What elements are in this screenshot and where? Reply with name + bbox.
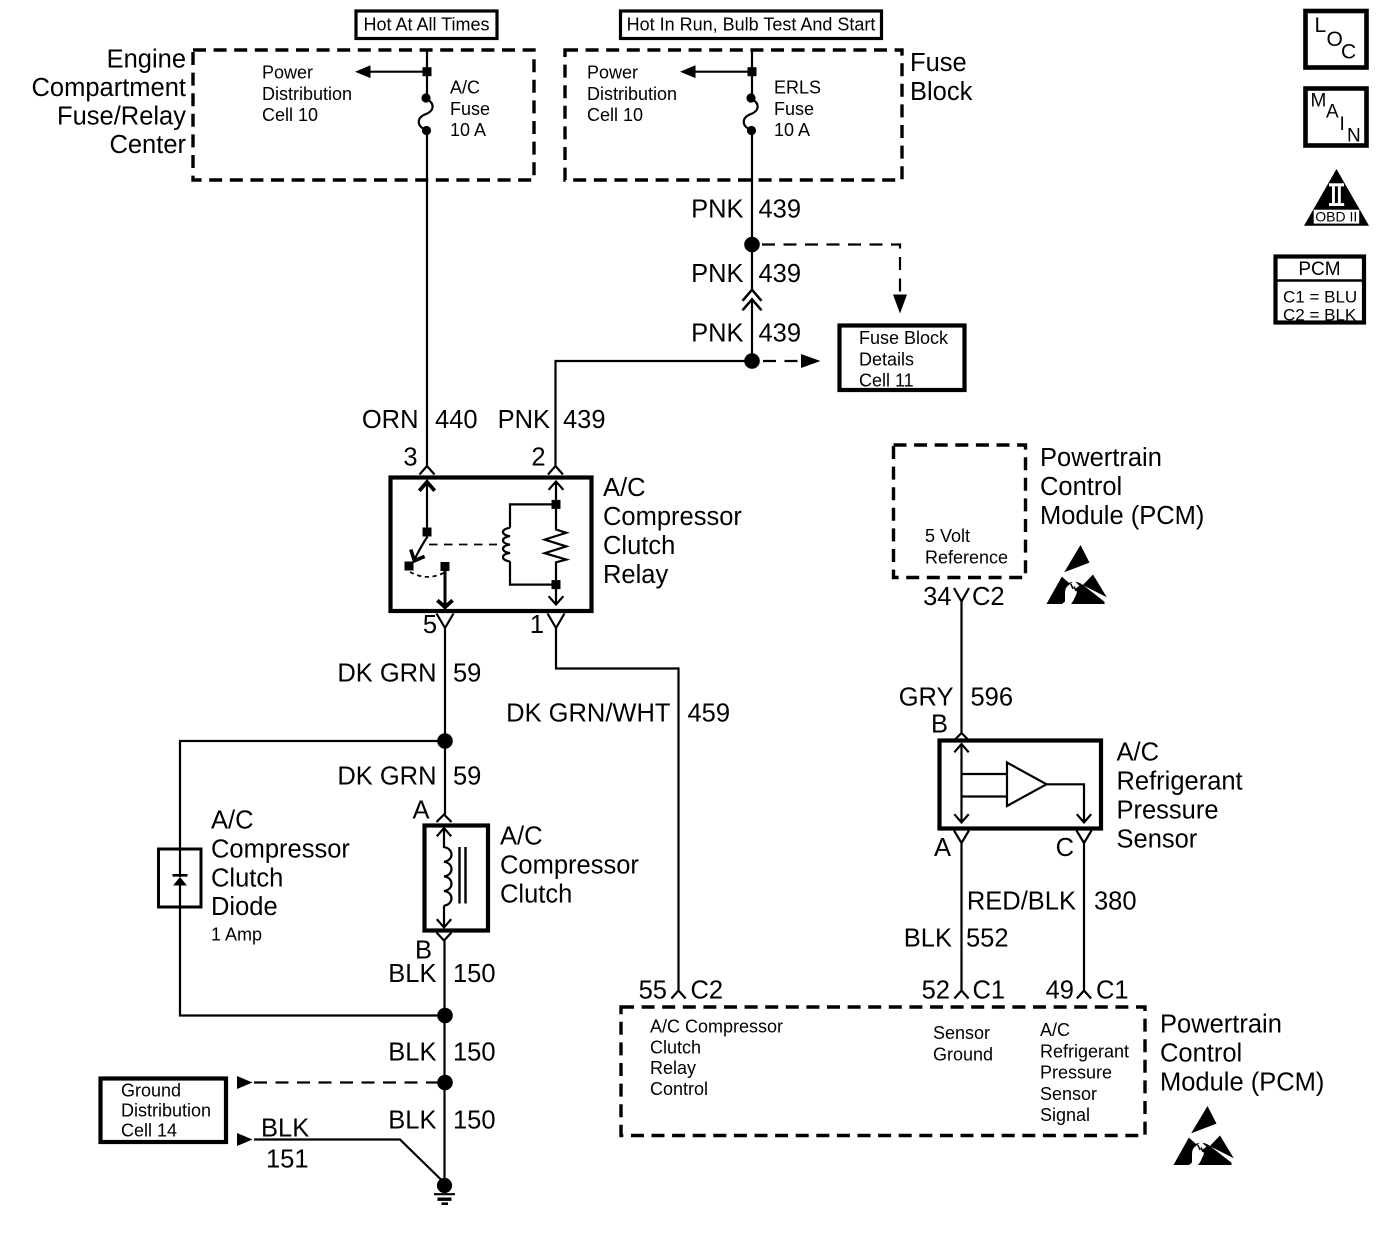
label box: Hot At All Times xyxy=(356,11,497,39)
svg-text:A/C Compressor: A/C Compressor xyxy=(650,1017,783,1037)
wire label: BLK 150 (first) xyxy=(388,960,495,988)
svg-text:Engine: Engine xyxy=(107,46,186,74)
PCM bottom dashed box xyxy=(621,1007,1145,1136)
junction J3 xyxy=(437,733,453,749)
fuse F: ERLS Fuse 10 A xyxy=(744,93,758,135)
svg-text:Details: Details xyxy=(859,349,914,369)
svg-text:A/C: A/C xyxy=(500,823,543,851)
pin label: 49 C1 xyxy=(1046,977,1129,1005)
svg-text:440: 440 xyxy=(435,406,478,434)
junction J1 xyxy=(744,237,760,253)
svg-text:C1: C1 xyxy=(973,977,1006,1005)
text: Power Distribution Cell 10 (fuse block) xyxy=(587,63,677,126)
junction square: A/C fuse tap xyxy=(423,67,432,76)
connector Y at sensor pin C xyxy=(1077,831,1092,844)
svg-text:A/C: A/C xyxy=(1040,1020,1070,1040)
text: Power Distribution Cell 10 (left box) xyxy=(262,63,352,126)
svg-text:RED/BLK: RED/BLK xyxy=(967,888,1076,916)
wire: 5V reference to sensor pin B xyxy=(960,602,962,734)
svg-text:59: 59 xyxy=(453,763,481,791)
connector Y at clutch pin B xyxy=(437,933,452,941)
svg-text:459: 459 xyxy=(688,700,731,728)
pin label: 52 C1 xyxy=(922,977,1005,1005)
relay switch arm with arrowhead xyxy=(411,537,428,561)
in-line connector chevrons on PNK wire xyxy=(743,290,762,311)
svg-text:BLK: BLK xyxy=(388,1039,436,1067)
svg-text:DK GRN: DK GRN xyxy=(337,660,436,688)
title: A/C Compressor Clutch Diode xyxy=(211,807,350,922)
svg-text:Ground: Ground xyxy=(933,1044,993,1064)
connector at PCM pin 52 xyxy=(954,991,968,999)
svg-text:ORN: ORN xyxy=(362,406,419,434)
box: Ground Distribution Cell 14 xyxy=(101,1079,227,1143)
relay pin 2 internal arrow xyxy=(549,482,564,501)
wire: battery feed into A/C fuse xyxy=(426,50,428,95)
svg-text:150: 150 xyxy=(453,1107,496,1135)
sensor op-amp xyxy=(1007,763,1047,807)
text: A/C Compressor Clutch Relay Control xyxy=(650,1017,783,1099)
svg-text:Hot At All Times: Hot At All Times xyxy=(363,15,489,35)
svg-text:Pressure: Pressure xyxy=(1040,1063,1112,1083)
svg-text:I: I xyxy=(1340,114,1345,135)
wire label: PNK 439 (middle) xyxy=(691,260,801,288)
sensor: A/C Refrigerant Pressure Sensor box xyxy=(940,741,1102,829)
svg-text:439: 439 xyxy=(759,320,802,348)
junction J5 xyxy=(437,1075,453,1091)
svg-text:34: 34 xyxy=(923,583,951,611)
wire: feed into ERLS fuse xyxy=(751,50,753,95)
relay coil junction square (top) xyxy=(552,500,561,509)
wire: sensor pin C to PCM pin 49 xyxy=(1083,843,1085,990)
wire: ERLS fuse output down to junction 2 xyxy=(751,135,753,291)
connector chevron at clutch pin A xyxy=(437,815,452,823)
svg-text:PNK: PNK xyxy=(691,196,743,224)
svg-text:Sensor: Sensor xyxy=(1117,826,1198,854)
dashed link: J1 to Fuse Block Details xyxy=(762,245,907,314)
wire: A/C fuse output down to relay pin 3 xyxy=(426,135,428,467)
diode D: A/C Compressor Clutch Diode box xyxy=(159,849,202,907)
wire label: RED/BLK 380 xyxy=(967,888,1137,916)
ground G101 xyxy=(434,1178,455,1204)
svg-text:DK GRN: DK GRN xyxy=(337,763,436,791)
wire label: PNK 439 (at relay pin 2) xyxy=(498,406,606,434)
title: A/C Refrigerant Pressure Sensor xyxy=(1117,739,1243,854)
relay K: A/C Compressor Clutch Relay box xyxy=(391,478,592,612)
wire: J3 branch to diode xyxy=(180,741,445,849)
text: A/C Fuse 10 A xyxy=(450,78,490,141)
text: 5 Volt Reference xyxy=(925,526,1008,568)
svg-text:A/C: A/C xyxy=(603,474,646,502)
connector chevron at relay pin 2 xyxy=(548,466,563,475)
svg-text:C1 = BLU: C1 = BLU xyxy=(1283,288,1357,307)
svg-text:439: 439 xyxy=(759,260,802,288)
svg-text:Diode: Diode xyxy=(211,893,278,921)
dashed link: J5 to Ground Distribution xyxy=(237,1076,438,1089)
svg-text:Fuse/Relay: Fuse/Relay xyxy=(57,103,186,131)
connector Y at sensor pin A xyxy=(954,831,969,844)
arrow to Power Distribution (left box) xyxy=(355,65,427,78)
svg-text:Refrigerant: Refrigerant xyxy=(1040,1041,1129,1061)
clutch coil with arrows xyxy=(437,828,452,928)
svg-text:5 Volt: 5 Volt xyxy=(925,526,970,546)
svg-text:C2 = BLK: C2 = BLK xyxy=(1283,306,1357,325)
svg-text:Control: Control xyxy=(1160,1040,1242,1068)
wire label: BLK 150 (third) xyxy=(388,1107,495,1135)
svg-text:5: 5 xyxy=(423,611,437,639)
svg-text:59: 59 xyxy=(453,660,481,688)
title: Engine Compartment Fuse/Relay Center xyxy=(32,46,187,160)
dashed actuation link switch-to-coil xyxy=(429,544,497,546)
title: Powertrain Control Module (PCM) bottom xyxy=(1160,1011,1324,1097)
connector Y at relay pin 1 xyxy=(548,614,565,629)
svg-text:1: 1 xyxy=(530,611,544,639)
svg-text:C1: C1 xyxy=(1096,977,1129,1005)
wire: diode to ground junction J4 xyxy=(180,907,445,1016)
Engine Compartment Fuse/Relay Center dashed box xyxy=(193,50,534,180)
wire: sensor pin A to PCM pin 52 xyxy=(960,843,962,990)
svg-text:Fuse Block: Fuse Block xyxy=(859,328,949,348)
svg-text:C: C xyxy=(1341,41,1356,64)
sensor output with arrow xyxy=(1047,784,1092,822)
relay pin 3 internal arrow xyxy=(419,482,434,529)
svg-text:Refrigerant: Refrigerant xyxy=(1117,768,1243,796)
svg-text:Control: Control xyxy=(1040,473,1122,501)
connector at PCM pin 49 xyxy=(1077,991,1091,999)
PCM 5 Volt Reference dashed box xyxy=(894,445,1026,578)
svg-text:M: M xyxy=(1311,91,1327,112)
svg-text:Compressor: Compressor xyxy=(603,503,742,531)
svg-text:Compressor: Compressor xyxy=(500,852,639,880)
svg-text:BLK: BLK xyxy=(388,1107,436,1135)
title: A/C Compressor Clutch xyxy=(500,823,639,909)
svg-text:Center: Center xyxy=(109,131,186,159)
svg-text:A/C: A/C xyxy=(1117,739,1160,767)
clutch M: A/C Compressor Clutch box xyxy=(425,826,489,931)
svg-text:Clutch: Clutch xyxy=(650,1037,701,1057)
Fuse Block dashed box xyxy=(565,50,902,180)
legend table: PCM connector colors xyxy=(1276,257,1365,325)
svg-text:BLK: BLK xyxy=(904,925,952,953)
wire: J2 to relay pin 2 xyxy=(556,361,753,466)
connector at PCM pin 55 xyxy=(671,991,685,999)
svg-text:Distribution: Distribution xyxy=(121,1101,211,1121)
svg-text:151: 151 xyxy=(266,1146,309,1174)
svg-text:Power: Power xyxy=(262,63,313,83)
relay internal resistor xyxy=(545,509,567,580)
text: Sensor Ground xyxy=(933,1023,993,1064)
relay pin 1 internal arrow xyxy=(549,589,564,605)
svg-text:Cell 14: Cell 14 xyxy=(121,1121,177,1141)
svg-text:2: 2 xyxy=(531,444,545,472)
svg-text:552: 552 xyxy=(966,925,1009,953)
legend symbol: OBD II triangle xyxy=(1304,169,1369,226)
svg-text:Control: Control xyxy=(650,1079,708,1099)
connector Y at PCM pin 34 xyxy=(954,588,969,602)
wire: BLK 151 ground lead xyxy=(237,1133,445,1183)
relay switch pivot contact xyxy=(423,528,432,537)
wire label: GRY 596 xyxy=(899,684,1013,712)
svg-text:380: 380 xyxy=(1094,888,1137,916)
connector chevron at relay pin 3 xyxy=(420,466,435,475)
svg-text:C2: C2 xyxy=(972,583,1005,611)
svg-text:GRY: GRY xyxy=(899,684,954,712)
wire: J3 down to clutch pin A xyxy=(444,741,446,815)
wire label: BLK 150 (second) xyxy=(388,1039,495,1067)
svg-text:596: 596 xyxy=(971,684,1014,712)
svg-text:Cell 11: Cell 11 xyxy=(859,371,914,391)
title: Powertrain Control Module (PCM) top xyxy=(1040,444,1204,530)
svg-text:52: 52 xyxy=(922,977,950,1005)
svg-text:Compartment: Compartment xyxy=(32,74,186,102)
svg-text:Ground: Ground xyxy=(121,1081,181,1101)
junction J4 xyxy=(437,1008,453,1024)
svg-text:Clutch: Clutch xyxy=(500,881,572,909)
svg-text:Distribution: Distribution xyxy=(587,84,677,104)
svg-text:Module (PCM): Module (PCM) xyxy=(1040,502,1204,530)
svg-text:A/C: A/C xyxy=(450,78,480,98)
svg-text:Fuse: Fuse xyxy=(910,49,967,77)
svg-text:N: N xyxy=(1347,126,1361,147)
wire label: PNK 439 (upper) xyxy=(691,196,801,224)
relay pin 5 internal arrow xyxy=(437,571,452,607)
junction J2 xyxy=(744,353,760,369)
svg-text:Cell 10: Cell 10 xyxy=(587,105,643,125)
wire label: PNK 439 (lower) xyxy=(691,320,801,348)
pin label: 34 C2 xyxy=(923,583,1004,611)
relay coil branch xyxy=(503,504,556,584)
svg-text:A/C: A/C xyxy=(211,807,254,835)
box: Fuse Block Details Cell 11 xyxy=(840,326,965,391)
svg-text:Sensor: Sensor xyxy=(1040,1084,1097,1104)
svg-text:OBD II: OBD II xyxy=(1315,208,1357,224)
svg-text:Distribution: Distribution xyxy=(262,84,352,104)
svg-text:Fuse: Fuse xyxy=(450,99,490,119)
svg-text:Powertrain: Powertrain xyxy=(1040,444,1162,472)
svg-text:BLK: BLK xyxy=(261,1115,309,1143)
dashed arrow: J2 to Fuse Block Details box xyxy=(763,354,821,368)
svg-text:Clutch: Clutch xyxy=(603,532,675,560)
svg-text:PNK: PNK xyxy=(498,406,550,434)
svg-text:Reference: Reference xyxy=(925,548,1008,568)
legend box: MAIN xyxy=(1306,89,1367,147)
wire: clutch pin B down to ground xyxy=(443,941,445,1181)
svg-text:BLK: BLK xyxy=(388,960,436,988)
wire label: BLK 552 xyxy=(904,925,1009,953)
svg-text:Power: Power xyxy=(587,63,638,83)
svg-text:55: 55 xyxy=(639,977,667,1005)
svg-text:C: C xyxy=(1056,834,1074,862)
clutch core lines xyxy=(460,847,466,904)
svg-text:ERLS: ERLS xyxy=(774,78,821,98)
svg-text:3: 3 xyxy=(403,444,417,472)
svg-text:L: L xyxy=(1315,14,1327,37)
wire label: DK GRN 59 (lower) xyxy=(337,763,481,791)
svg-text:Clutch: Clutch xyxy=(211,864,283,892)
connector chevron at sensor pin B xyxy=(954,733,969,741)
sensor internal input branches xyxy=(962,774,1008,797)
text: ERLS Fuse 10 A xyxy=(774,78,821,141)
svg-text:C2: C2 xyxy=(691,977,724,1005)
svg-text:Compressor: Compressor xyxy=(211,835,350,863)
fuse F: A/C Fuse 10 A xyxy=(419,93,433,135)
svg-text:10 A: 10 A xyxy=(774,120,810,140)
svg-text:150: 150 xyxy=(453,960,496,988)
wire label: BLK 151 xyxy=(261,1115,309,1174)
svg-text:Hot In Run, Bulb Test And Star: Hot In Run, Bulb Test And Start xyxy=(627,15,876,35)
text: A/C Refrigerant Pressure Sensor Signal xyxy=(1040,1020,1129,1125)
label box: Hot In Run, Bulb Test And Start xyxy=(621,11,882,39)
connector Y at relay pin 5 xyxy=(437,614,454,629)
svg-text:A: A xyxy=(934,834,951,862)
svg-text:10 A: 10 A xyxy=(450,120,486,140)
svg-text:150: 150 xyxy=(453,1039,496,1067)
title: Fuse Block xyxy=(910,49,973,106)
wire: relay pin 1 to PCM pin 55 xyxy=(556,628,679,990)
svg-text:A: A xyxy=(412,797,429,825)
wire label: ORN 440 xyxy=(362,406,478,434)
svg-text:Relay: Relay xyxy=(603,561,668,589)
ESD symbol (bottom) xyxy=(1174,1106,1234,1165)
svg-text:Block: Block xyxy=(910,78,973,106)
wire label: DK GRN/WHT 459 xyxy=(506,700,730,728)
pin label: 55 C2 xyxy=(639,977,723,1005)
title: A/C Compressor Clutch Relay xyxy=(603,474,742,589)
relay switch NO contact xyxy=(441,562,450,571)
svg-text:Module (PCM): Module (PCM) xyxy=(1160,1069,1324,1097)
svg-text:PCM: PCM xyxy=(1298,259,1340,280)
svg-text:B: B xyxy=(931,711,948,739)
junction square: ERLS fuse tap xyxy=(748,67,757,76)
wire: relay pin 5 down to junction J3 xyxy=(444,628,446,741)
svg-text:Signal: Signal xyxy=(1040,1105,1090,1125)
svg-text:Powertrain: Powertrain xyxy=(1160,1011,1282,1039)
relay coil junction square (bottom) xyxy=(552,580,561,589)
legend box: LOC xyxy=(1306,11,1367,68)
svg-text:PNK: PNK xyxy=(691,320,743,348)
arrow to Power Distribution (fuse block) xyxy=(680,65,752,78)
svg-text:Pressure: Pressure xyxy=(1117,797,1219,825)
svg-text:PNK: PNK xyxy=(691,260,743,288)
svg-text:DK GRN/WHT: DK GRN/WHT xyxy=(506,700,670,728)
svg-text:49: 49 xyxy=(1046,977,1074,1005)
svg-text:Cell 10: Cell 10 xyxy=(262,105,318,125)
svg-text:Fuse: Fuse xyxy=(774,99,814,119)
svg-text:Sensor: Sensor xyxy=(933,1023,990,1043)
svg-text:439: 439 xyxy=(563,406,606,434)
svg-text:1 Amp: 1 Amp xyxy=(211,925,262,945)
relay switch NC contact xyxy=(405,562,414,571)
diode symbol xyxy=(173,849,188,907)
svg-text:A: A xyxy=(1326,102,1339,123)
svg-text:Relay: Relay xyxy=(650,1058,696,1078)
dashed throw arc of switch xyxy=(410,572,445,577)
sensor internal supply line with arrows xyxy=(954,744,968,823)
ESD symbol (top) xyxy=(1047,545,1107,604)
wire label: DK GRN 59 (upper) xyxy=(337,660,481,688)
svg-text:439: 439 xyxy=(759,196,802,224)
